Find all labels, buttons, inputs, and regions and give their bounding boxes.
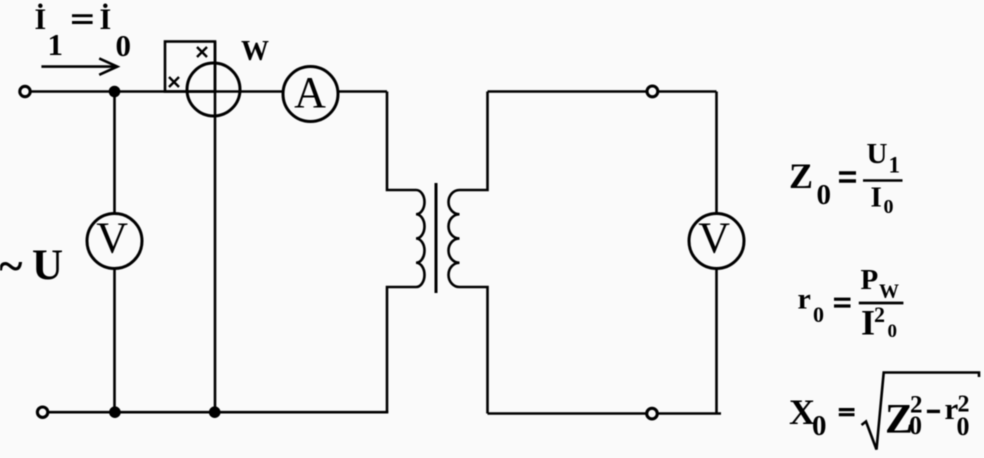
svg-text:r: r <box>798 283 811 316</box>
svg-text:0: 0 <box>116 28 132 63</box>
svg-text:0: 0 <box>812 410 827 442</box>
svg-text:P: P <box>861 264 879 296</box>
svg-text:Z: Z <box>789 156 813 196</box>
svg-text:V: V <box>698 214 730 263</box>
svg-text:0: 0 <box>884 196 894 218</box>
svg-text:A: A <box>294 68 326 117</box>
svg-text:I: I <box>871 181 882 213</box>
svg-text:0: 0 <box>888 321 898 342</box>
svg-text:0: 0 <box>909 411 922 440</box>
svg-text:I: I <box>861 303 875 343</box>
svg-text:U: U <box>867 138 888 170</box>
svg-text:W: W <box>879 280 899 302</box>
svg-text:0: 0 <box>957 412 970 441</box>
svg-text:V: V <box>96 214 128 263</box>
svg-text:0: 0 <box>817 179 832 211</box>
svg-text:2: 2 <box>874 302 885 327</box>
svg-text:İ: İ <box>100 3 112 36</box>
svg-text:İ: İ <box>35 3 47 36</box>
svg-text:0: 0 <box>813 302 824 327</box>
svg-text:U: U <box>32 242 63 289</box>
svg-text:1: 1 <box>889 152 901 177</box>
svg-text:~: ~ <box>0 240 23 291</box>
svg-text:W: W <box>241 36 269 67</box>
svg-text:1: 1 <box>48 27 64 62</box>
